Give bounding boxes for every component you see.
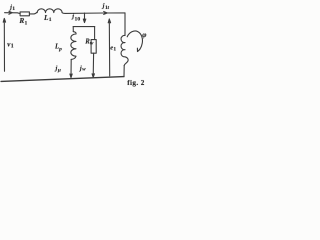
wire Lp to bottom with arrow j_mu <box>70 59 72 77</box>
arrow e1 (induced EMF, pointing up) <box>108 19 110 76</box>
wire stub to Lp <box>72 27 74 32</box>
wire shunt top bar <box>73 26 95 28</box>
flux arrow phi (loop around winding) <box>127 31 142 52</box>
resistor R1 <box>20 12 29 16</box>
inductor Lp (magnetizing branch coil) <box>71 32 76 60</box>
arrow v1 (source voltage, left side, pointing up) <box>3 18 5 71</box>
svg-text:j1: j1 <box>9 4 15 12</box>
wire top-left with current arrow j1 <box>5 11 21 14</box>
svg-text:fig. 2: fig. 2 <box>127 79 145 87</box>
resistor Rw (iron-loss branch) <box>91 40 96 54</box>
winding e1 (coil on right rail) <box>121 35 128 65</box>
wire Rw to bottom with arrow j_w <box>92 53 94 77</box>
wire bottom rail <box>1 77 124 82</box>
svg-text:Rw: Rw <box>84 39 94 47</box>
svg-text:e1: e1 <box>110 45 116 53</box>
wire R1 to L1 <box>29 12 36 14</box>
wire right rail upper <box>124 13 126 36</box>
svg-text:φ: φ <box>142 31 146 39</box>
wire stub to Rw <box>94 27 96 40</box>
inductor L1 <box>37 9 62 13</box>
wire right rail lower <box>123 65 125 76</box>
wire L1 to node, with arrow j1t, to top-right corner <box>62 12 125 15</box>
wire node to shunt with arrow j10 <box>83 13 86 23</box>
